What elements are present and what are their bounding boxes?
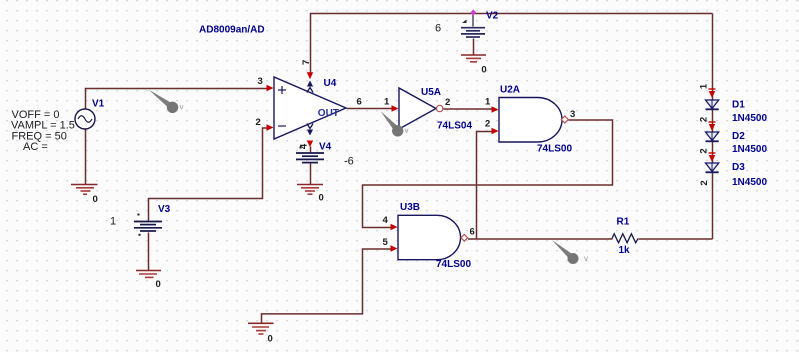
wire V2 bottom stub to ground bbox=[473, 39, 475, 56]
inverter U5A bbox=[399, 88, 436, 129]
nand U2A bbox=[499, 98, 562, 143]
probe at R1 wire bbox=[552, 240, 588, 264]
V1 value text bbox=[11, 109, 75, 153]
U3B bubble bbox=[461, 235, 468, 242]
svg-text:6: 6 bbox=[435, 23, 441, 35]
U4 power pin 7 glyph bbox=[307, 81, 313, 93]
svg-text:2: 2 bbox=[699, 180, 710, 185]
source V1 bbox=[75, 109, 95, 129]
battery V2 bbox=[472, 13, 474, 27]
wire top rail from U4 pin7 riser to diode column bbox=[311, 14, 713, 73]
svg-text:4: 4 bbox=[383, 215, 389, 226]
wire V3 to U4 pin2 bbox=[149, 128, 268, 221]
wire V1 bottom to ground bbox=[85, 130, 87, 185]
svg-text:7: 7 bbox=[301, 60, 312, 65]
svg-text:2: 2 bbox=[445, 97, 450, 108]
nand U3B bbox=[398, 215, 461, 259]
svg-text:1: 1 bbox=[110, 216, 116, 228]
wire U4 output pin6 to U5A pin1 bbox=[347, 108, 393, 110]
svg-text:0: 0 bbox=[481, 65, 486, 76]
svg-text:v: v bbox=[180, 103, 184, 112]
diode D2 bbox=[706, 122, 719, 141]
svg-text:v: v bbox=[584, 254, 588, 263]
U2A bubble bbox=[561, 116, 568, 123]
svg-text:0: 0 bbox=[268, 334, 273, 345]
wire V4 bottom to ground bbox=[310, 164, 312, 185]
svg-text:U4: U4 bbox=[324, 78, 337, 89]
wire R1 to diode column bbox=[639, 238, 713, 240]
svg-text:74LS04: 74LS04 bbox=[437, 121, 472, 132]
U5A bubble bbox=[437, 105, 443, 111]
ground 0 under V1 bbox=[71, 185, 98, 195]
svg-text:V2: V2 bbox=[486, 11, 499, 22]
wire U3B pin5 to ground bbox=[262, 249, 392, 323]
svg-text:V4: V4 bbox=[319, 142, 332, 153]
svg-text:v: v bbox=[405, 126, 409, 135]
svg-text:V1: V1 bbox=[92, 99, 105, 110]
diode D1 bbox=[706, 89, 719, 109]
svg-text:U5A: U5A bbox=[421, 87, 441, 98]
junction node at V2 bbox=[470, 9, 476, 15]
wire U3B pin6 output to R1 bbox=[468, 238, 613, 240]
svg-text:1: 1 bbox=[699, 83, 710, 89]
svg-text:74LS00: 74LS00 bbox=[436, 259, 471, 270]
wire V3 bottom to ground bbox=[148, 233, 150, 271]
svg-text:0: 0 bbox=[319, 193, 324, 204]
svg-text:D3: D3 bbox=[732, 162, 745, 173]
ground 0 under V2 bbox=[461, 55, 486, 62]
op-amp U4 bbox=[274, 77, 346, 139]
svg-text:3: 3 bbox=[570, 109, 575, 120]
svg-text:D1: D1 bbox=[732, 100, 745, 111]
wire V1 to U4 pin3 bbox=[86, 89, 269, 110]
pin arrow U2A pin2 bbox=[492, 128, 499, 134]
svg-text:2: 2 bbox=[485, 119, 490, 130]
svg-text:1: 1 bbox=[384, 97, 390, 108]
diode D3 bbox=[706, 153, 719, 172]
pin arrow U4 pin2 bbox=[267, 124, 274, 130]
resistor R1 bbox=[612, 234, 638, 243]
svg-text:AC =: AC = bbox=[23, 141, 48, 153]
svg-text:1N4500: 1N4500 bbox=[732, 177, 767, 188]
ground 0 under V4 bbox=[297, 185, 323, 195]
pin arrow U3B pin5 bbox=[391, 245, 398, 251]
svg-text:AD8009an/AD: AD8009an/AD bbox=[199, 25, 265, 36]
svg-text:U2A: U2A bbox=[500, 85, 520, 96]
svg-text:1k: 1k bbox=[619, 245, 631, 256]
pin arrow U4 pin7 bbox=[307, 72, 313, 79]
svg-text:U3B: U3B bbox=[400, 202, 420, 213]
svg-text:0: 0 bbox=[156, 279, 161, 290]
svg-text:6: 6 bbox=[470, 227, 475, 238]
wire U2A pin3 feedback to U3B pin4 bbox=[363, 120, 613, 228]
svg-text:1N4500: 1N4500 bbox=[732, 144, 767, 155]
pin arrow U3B pin4 bbox=[391, 224, 398, 230]
probe at V1 wire bbox=[149, 90, 184, 114]
pin arrow U4 pin4 bbox=[307, 141, 313, 148]
svg-text:6: 6 bbox=[357, 97, 362, 108]
ground 0 bottom bbox=[248, 323, 274, 334]
svg-text:D2: D2 bbox=[732, 131, 745, 142]
ground 0 under V3 bbox=[136, 271, 161, 278]
svg-text:-6: -6 bbox=[344, 156, 354, 168]
svg-text:0: 0 bbox=[93, 194, 98, 205]
wire U4 pin4 to V4 bbox=[310, 147, 312, 153]
pin arrow U5A pin1 bbox=[392, 105, 399, 111]
svg-text:2: 2 bbox=[699, 117, 710, 122]
svg-text:R1: R1 bbox=[617, 217, 630, 228]
battery V4 bbox=[296, 153, 324, 163]
U4 power pin 4 glyph bbox=[307, 124, 313, 136]
svg-text:OUT: OUT bbox=[318, 108, 339, 119]
svg-text:1N4500: 1N4500 bbox=[732, 113, 767, 124]
svg-text:5: 5 bbox=[383, 237, 389, 248]
pin arrow U2A pin1 bbox=[492, 106, 499, 112]
battery V3 bbox=[134, 222, 162, 232]
svg-text:1: 1 bbox=[485, 97, 491, 108]
svg-text:V3: V3 bbox=[158, 204, 171, 215]
probe at U5A input bbox=[381, 111, 409, 137]
svg-text:2: 2 bbox=[699, 148, 710, 153]
wire diode column right side bbox=[712, 14, 714, 240]
svg-text:2: 2 bbox=[256, 117, 261, 128]
wire U5A pin2 to U2A pin1 bbox=[444, 108, 493, 110]
pin arrow U4 pin3 bbox=[267, 85, 274, 91]
svg-text:3: 3 bbox=[258, 76, 263, 87]
svg-text:74LS00: 74LS00 bbox=[537, 144, 572, 155]
wire U2A pin2 down to node R bbox=[477, 132, 493, 240]
